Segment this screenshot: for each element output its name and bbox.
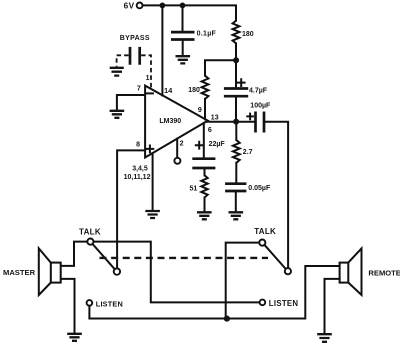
capacitor 0.05uF (225, 184, 246, 191)
wire talk-left to master speaker (61, 242, 87, 266)
svg-text:REMOTE: REMOTE (368, 268, 400, 277)
svg-text:180: 180 (188, 87, 200, 94)
wire resistor to node A (235, 43, 237, 60)
switch arm right (265, 245, 286, 269)
svg-text:22µF: 22µF (209, 141, 226, 148)
svg-text:BYPASS: BYPASS (120, 35, 150, 42)
listen terminal right (260, 300, 266, 306)
capacitor 22uF (192, 159, 215, 168)
capacitor bypass (130, 47, 140, 65)
switch contact right (285, 268, 291, 274)
wire remote speaker to ground (325, 279, 340, 334)
speaker master (39, 248, 61, 295)
svg-text:LM390: LM390 (159, 118, 181, 125)
svg-text:6: 6 (208, 127, 212, 134)
capacitor 100uF (256, 112, 265, 133)
svg-text:LISTEN: LISTEN (96, 300, 123, 309)
listen terminal left (87, 300, 93, 306)
wire resistor to pin 9 (204, 99, 206, 119)
svg-text:2: 2 (180, 141, 184, 148)
wire pin 8 to talk switch (117, 150, 145, 268)
junction bottom rail (224, 316, 230, 322)
svg-text:180: 180 (242, 31, 254, 38)
wire bottom rail (89, 266, 339, 319)
wire pin 7 (117, 95, 145, 110)
wire output to 2.7 (235, 122, 237, 140)
svg-text:6V: 6V (124, 1, 135, 10)
wire node A to pin 9 resistor (205, 60, 236, 75)
wire top supply rail (143, 5, 237, 20)
svg-text:7: 7 (137, 86, 141, 93)
wire 4.7uF to output node (235, 98, 237, 122)
resistor 51 (201, 175, 207, 197)
wire bypass left (dashed) (117, 55, 129, 67)
capacitor 22uF plus (196, 142, 203, 149)
wire 2.7 to 0.05uF (235, 163, 237, 183)
wire bypass right to pin 1 (dashed) (141, 55, 151, 88)
svg-text:4.7µF: 4.7µF (249, 88, 268, 95)
junction node pin14 feed (160, 3, 166, 9)
ground 51 (197, 212, 212, 219)
ganged switch linkage (dashed) (100, 257, 269, 259)
op-amp minus input mark (147, 92, 153, 94)
wire output pin 13 (207, 121, 255, 123)
wire 51 to ground (204, 198, 206, 213)
svg-text:0.05µF: 0.05µF (248, 185, 271, 192)
svg-text:TALK: TALK (79, 227, 101, 236)
ground bypass (110, 68, 124, 76)
wire 100uF to right switch (265, 122, 288, 268)
wire 22uF to 51 (204, 169, 206, 175)
op-amp plus input mark (147, 146, 154, 153)
switch arm left (93, 244, 115, 269)
wire 0.05uF to ground (235, 192, 237, 212)
svg-text:0.1µF: 0.1µF (197, 31, 217, 38)
wire pin 14 (161, 5, 163, 95)
pin 2 terminal (174, 158, 180, 164)
wire 0.1uF feed (182, 5, 184, 31)
ground 0.1uF (176, 56, 191, 63)
talk terminal right (259, 240, 265, 246)
svg-text:14: 14 (164, 86, 173, 95)
svg-text:3,4,5: 3,4,5 (132, 166, 148, 173)
svg-text:MASTER: MASTER (3, 268, 36, 277)
svg-text:13: 13 (211, 115, 219, 122)
ground pin 7 (110, 111, 125, 118)
resistor 2.7 (233, 140, 240, 163)
junction node 0.1uF feed (180, 3, 186, 9)
capacitor 4.7uF (224, 89, 248, 97)
wire 0.1uF to ground (182, 41, 184, 56)
wire talk-right down to bottom rail (226, 243, 260, 319)
wire node A to 4.7uF (235, 60, 237, 87)
junction output node (233, 119, 239, 125)
junction node A (233, 57, 239, 63)
wire pin 6 to 22uF (203, 123, 205, 157)
svg-text:8: 8 (136, 141, 140, 148)
capacitor 4.7uF plus (238, 79, 245, 86)
capacitor 0.1uF (171, 32, 195, 39)
svg-text:9: 9 (198, 107, 202, 114)
resistor 180 (supply) (233, 21, 240, 44)
svg-text:100µF: 100µF (250, 103, 271, 110)
svg-text:TALK: TALK (254, 227, 276, 236)
wire master speaker to ground (61, 279, 75, 334)
svg-text:51: 51 (190, 185, 198, 192)
ground master (67, 334, 82, 341)
talk terminal left (87, 239, 93, 245)
ground 0.05uF (229, 212, 244, 219)
svg-text:1: 1 (146, 75, 150, 82)
wire pin 2 (176, 139, 178, 158)
svg-text:2.7: 2.7 (243, 149, 253, 156)
capacitor 100uF plus (247, 114, 253, 120)
wire talk-left to listen-right (94, 242, 260, 303)
6V input terminal (137, 3, 143, 9)
svg-text:LISTEN: LISTEN (269, 299, 299, 308)
speaker remote (340, 248, 362, 295)
resistor 180 (pin 9) (202, 76, 209, 99)
svg-text:10,11,12: 10,11,12 (124, 174, 151, 181)
ground remote (317, 334, 332, 342)
wire pins 3,4,5,10,11,12 to ground (152, 153, 154, 210)
switch contact left (114, 268, 120, 274)
op-amp LM390 (145, 86, 208, 158)
ground op-amp (145, 211, 160, 218)
